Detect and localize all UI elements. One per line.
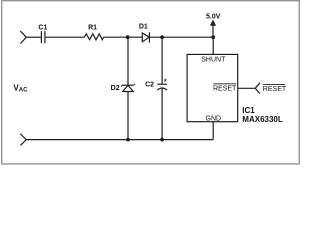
capacitor C1: [40, 31, 42, 43]
border frame: [2, 1, 300, 164]
junction node D (D2/rail): [126, 138, 130, 142]
zener diode D2: [127, 37, 129, 85]
svg-text:SHUNT: SHUNT: [201, 57, 226, 64]
bottom rail: [26, 139, 213, 141]
junction node B (D1/C2): [160, 35, 164, 39]
SHUNT pin wire: [212, 37, 214, 54]
5.0V arrow stem: [212, 25, 214, 37]
wire: [26, 36, 41, 38]
svg-text:C1: C1: [38, 24, 47, 31]
wire: [104, 36, 143, 38]
svg-text:RESET: RESET: [213, 86, 237, 93]
svg-text:IC1: IC1: [242, 106, 255, 115]
5.0V arrowhead: [210, 20, 216, 26]
junction node E (C2/rail): [160, 138, 164, 142]
IC box: [187, 54, 238, 121]
junction node A (R1/D1/D2): [126, 35, 130, 39]
svg-text:MAX6330L: MAX6330L: [242, 115, 283, 124]
GND pin wire: [212, 122, 214, 140]
input terminal top (chevron): [20, 31, 26, 44]
resistor R1: [84, 34, 103, 40]
svg-text:D2: D2: [111, 85, 120, 92]
svg-text:GND: GND: [206, 115, 222, 122]
junction node C (5.0V/SHUNT): [211, 35, 215, 39]
wire: [45, 36, 84, 38]
RESET pin wire: [238, 87, 256, 89]
svg-text:C2: C2: [145, 82, 154, 89]
wire: [149, 36, 213, 38]
reset terminal chevron: [255, 83, 260, 94]
svg-text:5.0V: 5.0V: [206, 14, 221, 21]
input terminal bottom (chevron): [20, 134, 26, 146]
svg-text:R1: R1: [88, 24, 97, 31]
svg-text:RESET: RESET: [263, 86, 287, 93]
diode D1: [142, 33, 149, 42]
capacitor C2: [161, 37, 163, 84]
svg-text:D1: D1: [139, 24, 148, 31]
svg-text:*: *: [164, 77, 168, 87]
